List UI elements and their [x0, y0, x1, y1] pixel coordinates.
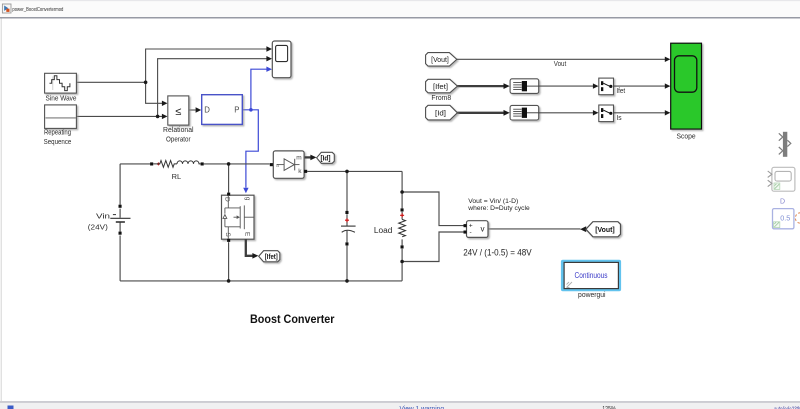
svg-text:(24V): (24V)	[88, 223, 109, 232]
svg-text:E: E	[244, 232, 251, 237]
svg-text:RL: RL	[172, 174, 182, 181]
svg-text:24V / (1-0.5) = 48V: 24V / (1-0.5) = 48V	[463, 247, 532, 257]
svg-text:≤: ≤	[175, 106, 181, 118]
svg-text:Load: Load	[374, 226, 393, 235]
svg-text:Sine Wave: Sine Wave	[46, 96, 77, 103]
svg-text:Vout: Vout	[554, 61, 567, 68]
svg-text:[Ifet]: [Ifet]	[265, 254, 278, 261]
svg-text:[Id]: [Id]	[321, 156, 331, 163]
svg-text:0.5: 0.5	[780, 214, 790, 223]
svg-text:Boost Converter: Boost Converter	[250, 312, 335, 326]
svg-text:v: v	[481, 225, 485, 234]
svg-text:125%: 125%	[602, 404, 616, 409]
svg-text:P: P	[234, 105, 239, 114]
svg-text:Ifet: Ifet	[616, 88, 625, 95]
svg-text:where: D=Duty cycle: where: D=Duty cycle	[467, 205, 530, 212]
svg-text:D: D	[780, 198, 785, 205]
svg-text:[Ifet]: [Ifet]	[433, 84, 448, 91]
svg-text:Sequence: Sequence	[44, 139, 72, 146]
svg-text:Is: Is	[616, 115, 622, 122]
svg-text:[Vout]: [Vout]	[431, 57, 449, 64]
svg-text:-: -	[470, 229, 472, 236]
svg-text:m: m	[296, 155, 301, 162]
svg-text:power_BoostConvertermod: power_BoostConvertermod	[12, 7, 63, 13]
svg-text:Relational: Relational	[163, 127, 194, 134]
svg-text:[Vout]: [Vout]	[595, 225, 615, 234]
svg-text:powergui: powergui	[578, 292, 606, 299]
svg-text:g: g	[244, 197, 251, 201]
svg-text:Scope: Scope	[677, 134, 696, 141]
svg-text:D: D	[224, 197, 231, 202]
svg-text:Operator: Operator	[166, 136, 191, 143]
svg-text:S: S	[224, 232, 231, 237]
svg-text:Continuous: Continuous	[575, 271, 608, 280]
svg-text:Repeating: Repeating	[44, 130, 71, 137]
svg-text:Vin: Vin	[96, 212, 110, 221]
svg-text:View 1 warning: View 1 warning	[400, 404, 445, 409]
svg-text:[Id]: [Id]	[435, 111, 446, 118]
svg-text:From8: From8	[431, 95, 451, 102]
svg-text:Vout = Vin/ (1-D): Vout = Vin/ (1-D)	[468, 198, 518, 205]
svg-text:auto(ode23tb: auto(ode23tb	[774, 405, 800, 409]
svg-text:D: D	[204, 105, 210, 114]
